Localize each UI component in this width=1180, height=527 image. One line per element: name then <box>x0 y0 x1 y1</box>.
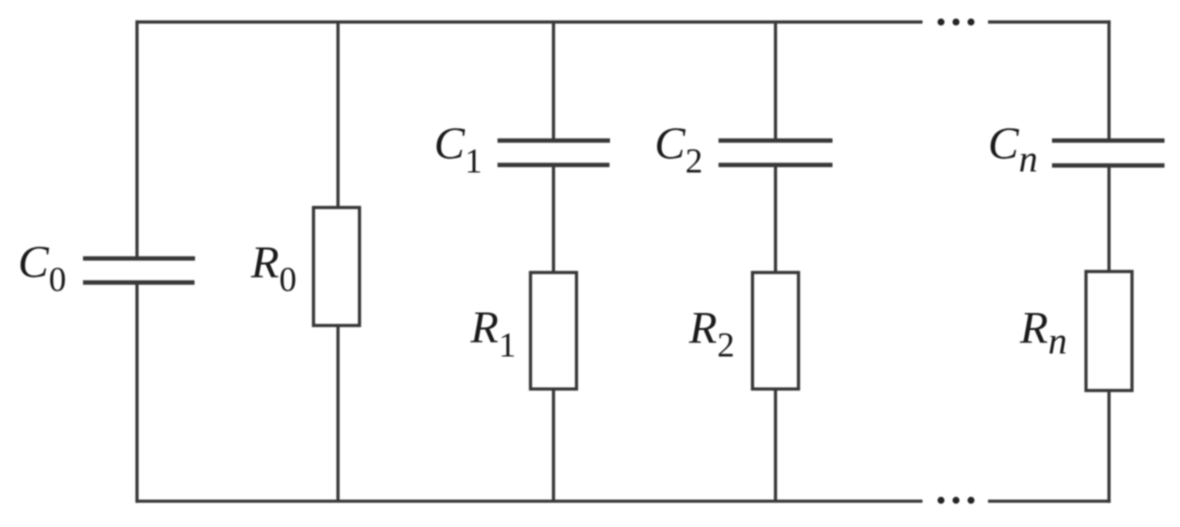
resistor R2 body <box>753 273 799 390</box>
svg-text:C0: C0 <box>18 236 66 299</box>
resistor Rn body <box>1086 272 1132 391</box>
wire branch4 upper (top rail to C2 top plate) <box>774 22 777 139</box>
wire branch5 lower (Rn to bottom rail) <box>1107 391 1110 503</box>
svg-text:C1: C1 <box>434 118 482 181</box>
wire branch2 lower (R0 to bottom rail) <box>336 326 339 502</box>
node dot bottom ellipsis 2 <box>953 497 960 504</box>
wire branch4 middle (C2 bottom plate to R2) <box>774 167 777 273</box>
svg-text:Rn: Rn <box>1019 302 1067 363</box>
capacitor C2 bottom plate <box>719 163 833 167</box>
wire top rail right segment <box>988 20 1111 23</box>
capacitor C1 bottom plate <box>498 163 610 167</box>
wire branch2 upper (top rail to R0) <box>336 22 339 208</box>
capacitor C1 top plate <box>498 138 611 142</box>
wire branch3 lower (R1 to bottom rail) <box>552 389 555 501</box>
wire top rail left segment <box>136 20 923 23</box>
svg-text:Cn: Cn <box>988 118 1038 181</box>
wire branch3 upper (top rail to C1 top plate) <box>552 22 555 139</box>
capacitor C2 top plate <box>719 138 833 142</box>
capacitor Cn top plate <box>1052 138 1165 142</box>
node dot bottom ellipsis 3 <box>968 497 975 504</box>
wire branch5 upper (top rail to Cn top plate) <box>1107 20 1110 139</box>
wire branch5 middle (Cn bottom plate to Rn) <box>1107 167 1110 272</box>
capacitor C0 top plate <box>83 256 195 260</box>
wire branch1 upper (top rail to C0 top plate) <box>135 20 138 257</box>
wire branch1 lower (C0 bottom plate to bottom rail) <box>135 284 138 503</box>
wire bottom rail left segment <box>136 500 923 503</box>
svg-text:R1: R1 <box>470 302 517 365</box>
node dot top ellipsis 1 <box>938 19 945 26</box>
wire branch4 lower (R2 to bottom rail) <box>774 389 777 501</box>
resistor R1 body <box>531 273 577 390</box>
svg-text:R0: R0 <box>250 237 297 300</box>
wire branch3 middle (C1 bottom plate to R1) <box>552 167 555 273</box>
node dot bottom ellipsis 1 <box>938 497 945 504</box>
svg-text:R2: R2 <box>688 302 735 365</box>
node dot top ellipsis 3 <box>968 19 975 26</box>
capacitor Cn bottom plate <box>1052 163 1165 167</box>
capacitor C0 bottom plate <box>83 280 195 284</box>
node dot top ellipsis 2 <box>953 19 960 26</box>
wire bottom rail right segment <box>988 500 1111 503</box>
resistor R0 body <box>314 208 360 326</box>
svg-text:C2: C2 <box>655 118 703 181</box>
